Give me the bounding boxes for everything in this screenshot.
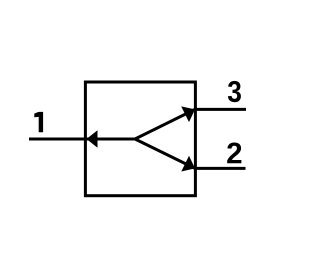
arrowhead at port 1 [87,130,98,148]
pin label 3 [228,81,241,102]
wire diagonal to port 2 [135,139,195,168]
wire diagonal to port 3 [135,109,195,139]
arrowhead at port 3 [181,106,195,122]
wire port 1 [29,138,135,141]
arrowhead at port 2 [181,156,195,172]
wire port 2 [194,167,246,170]
pin label 2 [227,143,241,164]
splitter box U1 [85,82,195,196]
pin label 1 [34,112,43,132]
wire port 3 [194,108,246,111]
